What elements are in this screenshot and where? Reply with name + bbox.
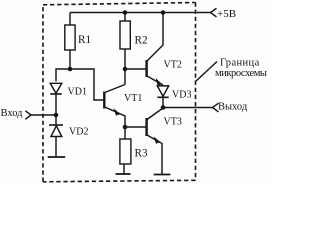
resistor R2 — [124, 13, 126, 22]
resistor R3 — [124, 127, 126, 139]
resistor R1 — [69, 13, 71, 26]
wire input — [31, 114, 56, 116]
terminal +5V — [211, 8, 217, 17]
transistor VT1 — [103, 92, 105, 109]
node input junction — [54, 113, 59, 118]
node VD3/VT3-collector/output junction — [161, 105, 166, 110]
svg-text:Вход: Вход — [1, 108, 24, 119]
svg-text:VT2: VT2 — [164, 60, 182, 71]
svg-text:R1: R1 — [78, 34, 91, 46]
ground (VT3) — [154, 174, 171, 176]
wire R1 node to VD1 — [56, 69, 70, 82]
svg-text:+5В: +5В — [217, 8, 236, 20]
diode VD1 — [50, 83, 62, 93]
chip boundary (dashed rectangle) — [43, 3, 196, 182]
svg-text:VT3: VT3 — [164, 117, 182, 128]
wire output — [163, 107, 213, 109]
wire R1 node to VT1 base — [70, 69, 103, 100]
svg-text:VD1: VD1 — [68, 87, 87, 98]
diode VD2 — [55, 115, 57, 125]
wire +5V rail — [70, 12, 211, 14]
svg-text:микросхемы: микросхемы — [215, 68, 267, 79]
node VT1-emitter/R3/VT3-base junction — [123, 125, 128, 130]
node R1/VD1/VT1-base junction — [68, 67, 73, 72]
svg-text:Выход: Выход — [218, 102, 248, 113]
node rail-VT2 junction — [161, 10, 166, 15]
diode VD3 — [157, 86, 168, 96]
svg-text:R2: R2 — [135, 35, 148, 47]
transistor VT2 — [145, 60, 147, 77]
svg-text:VD3: VD3 — [172, 90, 191, 101]
callout line to chip boundary — [195, 62, 217, 83]
transistor VT3 — [145, 118, 147, 136]
wire node to VT2 base — [125, 68, 146, 70]
svg-text:VT1: VT1 — [124, 93, 142, 104]
node R2/VT1-collector/VT2-base junction — [123, 67, 128, 72]
wire node to VT3 base — [125, 126, 146, 128]
terminal output — [213, 103, 219, 112]
terminal input — [25, 111, 31, 120]
ground (R3) — [116, 173, 131, 175]
ground (VD2) — [48, 156, 65, 158]
node rail-R2 junction — [123, 10, 128, 15]
svg-text:R3: R3 — [135, 148, 148, 160]
svg-text:VD2: VD2 — [69, 127, 88, 138]
